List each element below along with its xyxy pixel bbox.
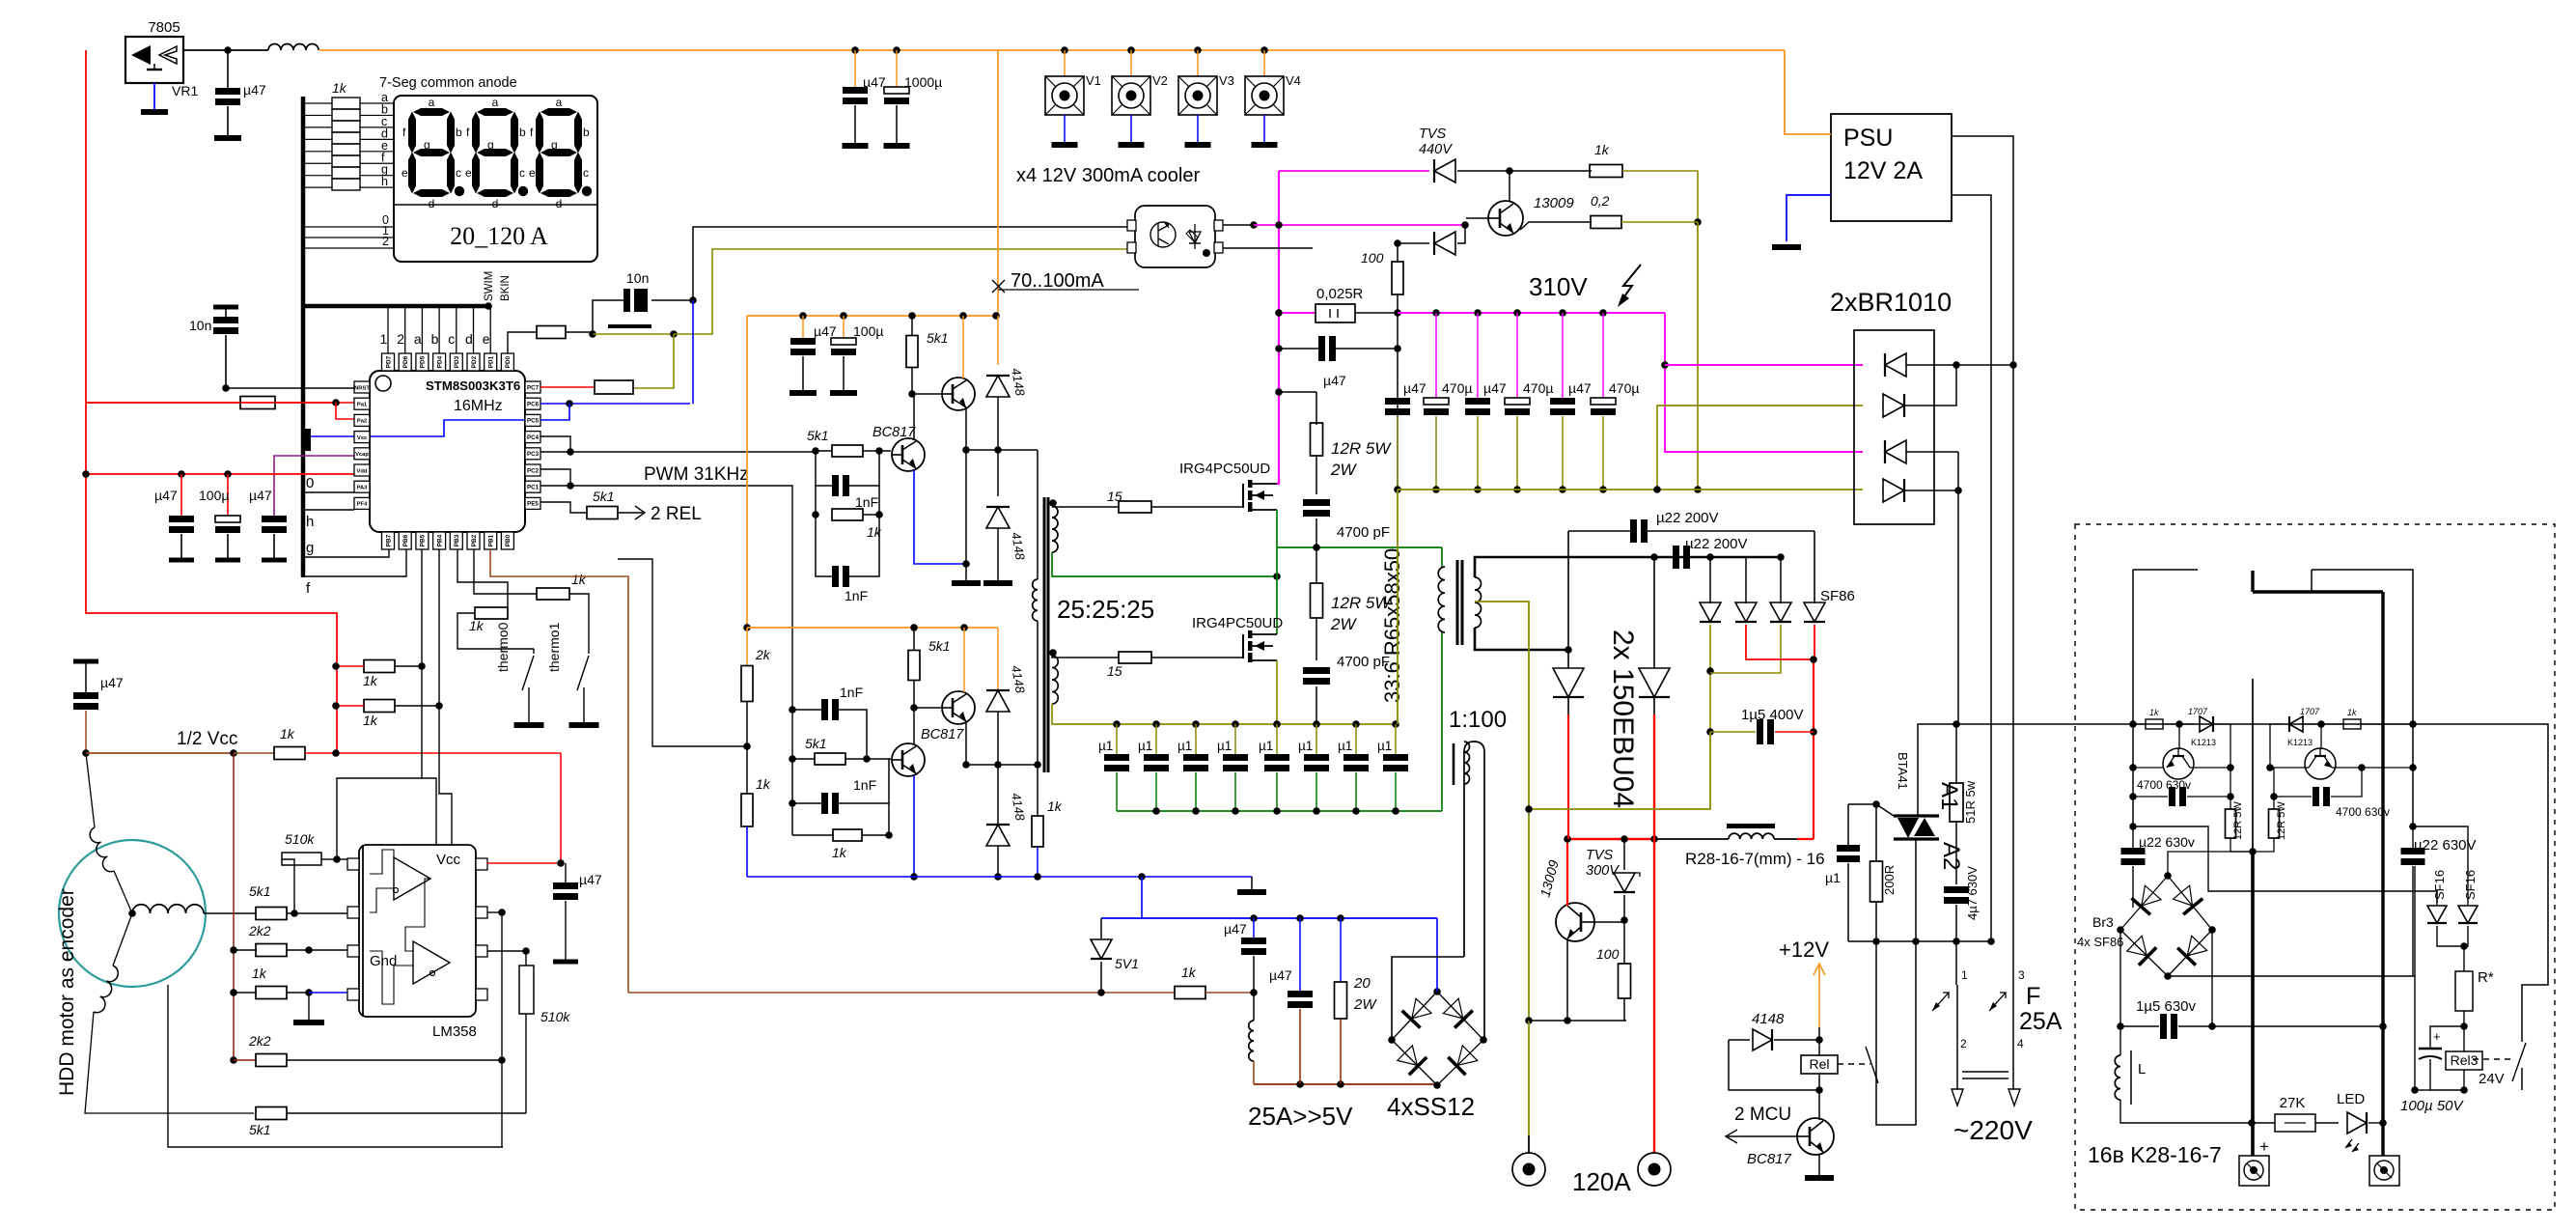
wire olive output to jack1 [1528, 809, 1530, 1021]
transistor Q6 13009 crowbar [1556, 903, 1594, 941]
capacitor u1 snubber gate [1847, 804, 1849, 845]
svg-text:1k: 1k [332, 80, 347, 96]
wire green to CT primary [1441, 547, 1443, 567]
inductor L module [2119, 1026, 2121, 1055]
wire T2 secondary bottom thick [1475, 628, 1568, 650]
pin PC6 [525, 398, 540, 409]
svg-text:g: g [424, 138, 430, 152]
diode D5 150EBU04 [1567, 650, 1569, 668]
wire red output bus [1567, 838, 1654, 840]
wire blue driver2 ground bus [747, 876, 1252, 878]
bridge Br3 4xSF86 [2120, 876, 2168, 930]
wire PC1 feed down to base [789, 755, 796, 763]
transformer T2 secondary winding [1475, 577, 1482, 628]
wire green bus horizontal [1277, 546, 1442, 548]
wire T2 secondary top thick [1475, 557, 1781, 577]
svg-text:470µ: 470µ [1609, 380, 1639, 396]
svg-text:51R 5w: 51R 5w [1963, 780, 1978, 824]
thick output wire 1 [2252, 679, 2254, 852]
diode BR D3 [1885, 440, 1906, 463]
pin Vdd [354, 464, 370, 476]
svg-text:200R: 200R [1882, 865, 1897, 895]
wire PC1 PWM to driver 2 [540, 486, 792, 759]
wire olive bus down to source bus [1397, 490, 1399, 724]
wire magenta 12R tap [1279, 391, 1316, 393]
jack output 2 [1638, 1153, 1671, 1186]
transformer T2 33:6 primary winding [1438, 567, 1445, 632]
capacitor u47 Vdd [180, 474, 182, 516]
svg-text:4µ7 630V: 4µ7 630V [1965, 866, 1980, 920]
svg-text:+: + [2433, 1029, 2441, 1044]
wire module feedback [2415, 1089, 2430, 1091]
svg-text:IRG4PC50UD: IRG4PC50UD [1179, 461, 1270, 477]
svg-text:1k: 1k [363, 713, 378, 728]
resistor 1k thermo1 [474, 549, 537, 594]
wire orange driver2 supply bus [747, 627, 998, 629]
svg-text:27K: 27K [2280, 1095, 2306, 1111]
shunt 0.025R [1279, 312, 1316, 314]
wire black to optocoupler pin1 [693, 227, 1129, 300]
svg-text:F: F [2026, 983, 2040, 1010]
capacitor 1nF lower driver2 [792, 802, 821, 804]
wire magenta 310V bus [1398, 312, 1665, 314]
dashed link Rel3 to mains switch [2473, 1058, 2510, 1060]
svg-text:1k: 1k [832, 845, 847, 860]
resistor 2k divider [741, 666, 753, 702]
capacitor 4700 630v right [2270, 793, 2278, 800]
svg-text:µ47: µ47 [249, 488, 272, 503]
inductor L1 filter [268, 44, 319, 51]
capacitor 4700pF lower [1316, 618, 1317, 660]
thermo0 switch [533, 649, 535, 654]
svg-text:1k: 1k [2149, 708, 2159, 717]
module boundary dashed box [2075, 524, 2555, 1210]
capacitor u47 filter2 [1299, 918, 1301, 991]
svg-text:SF16: SF16 [2463, 870, 2478, 900]
svg-text:1k: 1k [1594, 142, 1610, 157]
output row wire driver1 [966, 449, 1038, 451]
wire Q1 emitter to output row [965, 408, 967, 450]
diode BR D4 [1883, 479, 1904, 502]
thick winding bar [2253, 590, 2383, 593]
svg-text:20_120 A: 20_120 A [450, 222, 548, 250]
transistor K1213 left [2163, 748, 2194, 779]
svg-text:1k: 1k [1181, 965, 1197, 980]
wire divider mid [746, 702, 748, 794]
wire magenta opto to base net [1223, 224, 1254, 226]
wire brown sense line [628, 992, 1175, 994]
capacitor u47 encoder [73, 659, 98, 664]
wire L to 27K [2120, 1100, 2252, 1123]
svg-text:2W: 2W [1330, 461, 1357, 479]
svg-text:2: 2 [397, 331, 404, 347]
svg-text:PD5: PD5 [420, 355, 427, 368]
wire PB6 segment f [304, 549, 406, 576]
svg-text:~220V: ~220V [1953, 1115, 2033, 1145]
svg-text:PC5: PC5 [527, 418, 540, 425]
svg-text:µ22 200V: µ22 200V [1656, 510, 1719, 526]
transformer T1 winding W2 left [1033, 579, 1038, 621]
svg-text:Vcap: Vcap [355, 452, 369, 458]
resistor 100 to 310V bus [1397, 243, 1399, 262]
capacitor u47 filter1 [1253, 918, 1255, 938]
resistor 1k TVS [1590, 165, 1622, 178]
svg-text:PD3: PD3 [454, 355, 460, 368]
diode 1707 right [2270, 724, 2283, 768]
svg-text:1µ5 630v: 1µ5 630v [2136, 998, 2197, 1015]
svg-text:Vss: Vss [357, 435, 367, 441]
svg-text:µ1: µ1 [1177, 739, 1192, 753]
svg-text:SWIM: SWIM [484, 271, 495, 301]
svg-text:d: d [465, 331, 473, 347]
wire magenta to BR1010 [1665, 313, 1863, 452]
ground blue bus [1251, 877, 1253, 889]
svg-text:x4 12V 300mA cooler: x4 12V 300mA cooler [1016, 165, 1200, 186]
capacitor u47 at VR1 output [227, 50, 229, 92]
breaker link bars [1962, 1071, 2008, 1073]
transistor Q7 BC817 relay driver [1818, 1090, 1820, 1120]
wire olive snubber bus [1078, 723, 1398, 725]
pin PC2 [525, 464, 540, 476]
wire long mains right [1958, 724, 2548, 1028]
wire right rail top [2312, 570, 2413, 826]
svg-text:R*: R* [2478, 969, 2494, 986]
wire PD0 to 1k [508, 332, 537, 353]
Vss bar [305, 429, 311, 451]
svg-text:2: 2 [1960, 1037, 1967, 1050]
svg-text:510k: 510k [285, 831, 315, 847]
svg-text:0,025R: 0,025R [1316, 286, 1364, 302]
fan V4 [1260, 46, 1268, 54]
arrow to 2 REL [618, 512, 643, 514]
svg-text:20: 20 [1353, 975, 1371, 992]
pin PD2 [467, 353, 480, 371]
svg-text:16в K28-16-7: 16в K28-16-7 [2088, 1142, 2222, 1167]
svg-text:5k1: 5k1 [807, 428, 829, 443]
svg-text:LM358: LM358 [432, 1023, 477, 1040]
svg-text:4148: 4148 [1752, 1011, 1785, 1027]
wire PE5 [540, 502, 587, 513]
wire W2 to driver outputs [1037, 450, 1039, 579]
svg-text:16MHz: 16MHz [454, 398, 503, 414]
svg-text:SF86: SF86 [1820, 588, 1855, 604]
pin PD3 [450, 353, 462, 371]
svg-text:d: d [492, 197, 499, 210]
wire pin2 net [487, 911, 502, 913]
diode SF16 b [2458, 906, 2478, 923]
resistor 2k2 b [234, 1059, 256, 1061]
pin PB1 [485, 532, 497, 549]
svg-text:25A>>5V: 25A>>5V [1248, 1102, 1353, 1131]
TVS 300V [1623, 839, 1625, 870]
svg-text:µ22 630v: µ22 630v [2139, 834, 2195, 850]
wire green IGBT1 source to node [1276, 510, 1278, 576]
svg-text:LED: LED [2337, 1091, 2365, 1107]
resistor 12R 5W lower [1316, 547, 1317, 583]
pin PB4 [433, 532, 446, 549]
resistor 1k sense [1175, 987, 1205, 999]
svg-text:PB1: PB1 [488, 534, 495, 546]
capacitor u47 Vcap [262, 516, 287, 522]
svg-text:b: b [519, 126, 526, 139]
capacitor 4700 630v left [2129, 793, 2137, 800]
svg-text:µ47: µ47 [1568, 380, 1592, 396]
svg-text:10n: 10n [626, 270, 649, 286]
pin Pa2 [354, 414, 370, 426]
wire olive cap bank to BR1010 upper [1657, 406, 1863, 490]
resistor 1k PC7 [540, 386, 595, 388]
wire PC4 [540, 436, 570, 452]
resistor 5k1 PE5 [587, 507, 618, 519]
resistor 1k gnd [234, 992, 256, 994]
pin PC4 [525, 432, 540, 443]
wire Q6 base [1594, 921, 1624, 923]
svg-text:3: 3 [2018, 968, 2025, 982]
display bus thick vertical [301, 97, 306, 577]
svg-text:1k: 1k [756, 776, 771, 792]
resistor 12R 5W upper [1316, 392, 1317, 425]
wire PF4 digit-h select [304, 509, 354, 511]
svg-text:5k1: 5k1 [805, 736, 827, 751]
resistor 1k output pulldown [1037, 765, 1039, 817]
svg-text:V1: V1 [1086, 73, 1101, 88]
capacitor 100u Vdd [227, 474, 229, 516]
pin Vss [354, 432, 370, 443]
resistor 51R 5W snubber [1955, 724, 1957, 783]
wire bridge output to A1 node [1953, 720, 1960, 728]
svg-text:1k: 1k [252, 966, 267, 981]
svg-text:PD0: PD0 [505, 355, 512, 368]
7-seg display module box [394, 96, 597, 262]
diode BR D1 [1885, 353, 1906, 377]
wire 5k1 to Q1 base [911, 368, 913, 394]
diode BR D2 [1883, 394, 1904, 417]
svg-text:PB4: PB4 [436, 534, 443, 546]
svg-text:PB6: PB6 [402, 534, 409, 546]
svg-text:h: h [381, 175, 388, 188]
svg-text:2k2: 2k2 [248, 1033, 271, 1049]
svg-text:4700 pF: 4700 pF [1337, 524, 1390, 541]
transistor Q1 upper NPN driver1 [942, 378, 975, 410]
wire green snubber return bus [1117, 810, 1442, 812]
wire Q3 emitter to output row [965, 722, 967, 765]
svg-text:10n: 10n [189, 318, 211, 333]
fan V3 [1194, 46, 1202, 54]
svg-text:Rel3: Rel3 [2451, 1052, 2479, 1068]
voltage regulator VR1 7805 [125, 37, 183, 83]
capacitor bank 310V u47/470u x6 [1385, 398, 1410, 405]
svg-text:PSU: PSU [1843, 125, 1893, 152]
resistor 1k on PD0 [537, 326, 566, 339]
svg-text:15: 15 [1107, 663, 1122, 679]
resistor 27K [2252, 1122, 2275, 1124]
wire red right branch down [1813, 659, 1814, 839]
wire blue to 25A>>5V bus [1141, 877, 1143, 918]
svg-text:µ1: µ1 [1217, 739, 1232, 753]
transformer T1 25:25:25 core [1043, 497, 1046, 772]
svg-text:L: L [2138, 1061, 2146, 1078]
resistor 2k2 a [234, 949, 256, 951]
svg-text:1: 1 [1961, 968, 1968, 982]
svg-text:g: g [487, 138, 494, 152]
svg-text:2: 2 [382, 235, 389, 248]
svg-text:PC3: PC3 [527, 451, 540, 458]
svg-text:µ47: µ47 [1269, 967, 1292, 983]
svg-text:100µ 50V: 100µ 50V [2400, 1098, 2465, 1114]
svg-text:µ1: µ1 [1377, 739, 1392, 753]
svg-text:4: 4 [2017, 1037, 2024, 1050]
wire Q3 collector orange [963, 628, 965, 692]
svg-text:PD2: PD2 [471, 355, 478, 368]
power rail +5V red vertical from 7805 input [86, 50, 337, 753]
pin PB2 [467, 532, 480, 549]
relay coil Rel [1818, 1027, 1820, 1055]
capacitor 1000u 12V rail [893, 46, 900, 54]
svg-text:13009: 13009 [1534, 195, 1574, 211]
thermo1 switch [588, 649, 590, 654]
wire W1 top to 15R [1052, 506, 1119, 508]
svg-text:IRG4PC50UD: IRG4PC50UD [1192, 615, 1283, 631]
pin PB3 [450, 532, 462, 549]
svg-text:0: 0 [306, 475, 314, 491]
pin PB6 [399, 532, 411, 549]
resistor 1k half Vcc [274, 747, 305, 760]
wire MCU PB5 line [395, 665, 422, 667]
wire thermo feeds [457, 549, 508, 607]
svg-text:TVS: TVS [1419, 126, 1447, 142]
capacitor u22 630V right [2409, 823, 2417, 830]
resistor 1k left driver [2129, 720, 2137, 728]
svg-text:µ47: µ47 [1224, 921, 1247, 937]
CT primary loop [1464, 742, 1484, 1040]
svg-text:h: h [306, 514, 314, 530]
capacitor u47 12V rail [851, 46, 859, 54]
svg-text:1nF: 1nF [853, 777, 876, 793]
relay contact verticals [1876, 985, 1916, 1125]
ground driver1 output [952, 580, 981, 586]
jack output 1 [1512, 1153, 1545, 1186]
svg-text:1nF: 1nF [855, 494, 878, 510]
svg-text:1707: 1707 [2188, 707, 2208, 716]
svg-text:V3: V3 [1219, 73, 1234, 88]
jack module - [2369, 1156, 2399, 1186]
relay contact blade [1866, 1047, 1878, 1083]
resistor 5k1 bottom [256, 1107, 287, 1120]
wire olive PD0 net [593, 333, 674, 335]
wire orange +12V top bus [319, 49, 1785, 51]
current note 70..100mA [992, 280, 1005, 293]
wire NRST [226, 387, 354, 389]
pin PD4 [433, 353, 446, 371]
svg-text:BC817: BC817 [921, 727, 964, 742]
svg-text:2x 150EBU04: 2x 150EBU04 [1607, 630, 1639, 808]
wire blue to bridge [1436, 918, 1438, 992]
svg-text:24V: 24V [2479, 1071, 2505, 1087]
wire Vdd red [86, 473, 354, 475]
svg-text:PF4: PF4 [357, 502, 368, 508]
LED indicator [2347, 1112, 2367, 1134]
svg-text:PE5: PE5 [527, 501, 539, 508]
fan V1 [1061, 46, 1068, 54]
wire Q5 emitter [1520, 222, 1592, 230]
wire Q2 collector to Q1 base [913, 394, 915, 440]
svg-text:7805: 7805 [148, 19, 180, 36]
svg-text:470µ: 470µ [1442, 380, 1472, 396]
svg-text:1k: 1k [363, 673, 378, 688]
7-seg digits 8.8.8 [413, 108, 450, 116]
capacitor 1nF upper driver1 [816, 451, 832, 486]
capacitor u47 across shunt [1279, 348, 1318, 350]
transistor Q2 BC817 driver1 [892, 438, 925, 471]
svg-text:g: g [551, 138, 558, 152]
wire red to jack2 [1653, 839, 1655, 1153]
svg-text:c: c [448, 331, 455, 347]
wires resistor array to display segment pins a-h [360, 102, 394, 104]
wire blue to Gnd pin [309, 992, 347, 994]
wire magenta IGBT1 drain [1277, 171, 1279, 484]
svg-text:µ22 200V: µ22 200V [1685, 536, 1748, 552]
svg-text:1k: 1k [571, 572, 587, 587]
wire MCU line to divider [618, 559, 747, 746]
capacitors u1 x8 snubber row [1116, 724, 1118, 754]
svg-text:100µ: 100µ [853, 323, 883, 339]
resistor 1k base2 driver1 [812, 511, 819, 518]
svg-text:70..100mA: 70..100mA [1011, 270, 1104, 292]
inductor R28-16-7 output choke [1654, 838, 1729, 840]
ground LM358 input [308, 993, 310, 1020]
svg-text:PWM 31KHz: PWM 31KHz [644, 464, 749, 485]
svg-text:5k1: 5k1 [249, 1122, 271, 1137]
wire SF16 join [2437, 926, 2468, 946]
svg-text:c: c [456, 166, 461, 180]
svg-text:100: 100 [1596, 946, 1620, 962]
svg-text:1k: 1k [469, 618, 485, 633]
svg-text:BKIN: BKIN [500, 275, 512, 301]
wire orange vertical from top bus to drivers [997, 50, 999, 316]
svg-text:PB7: PB7 [385, 534, 392, 546]
wire red D1 to crowbar [1566, 839, 1568, 906]
svg-text:µ47: µ47 [863, 74, 886, 90]
svg-text:V4: V4 [1286, 73, 1301, 88]
capacitor u22 200V first [1630, 519, 1637, 543]
wire left rail mid [2129, 823, 2137, 830]
breaker F1 [1956, 985, 1958, 1089]
diode SF16 a [2436, 891, 2438, 905]
ground Q7 [1818, 1154, 1820, 1175]
resistor 5k1 vertical driver2 [913, 628, 915, 651]
transformer T1 winding W3 lower right [1052, 656, 1058, 704]
diode 1707 left [2179, 723, 2195, 725]
wire CT to bridge left [1392, 957, 1464, 1040]
wire 7805 output [183, 49, 268, 51]
wire olive 0.2 to rail [1621, 221, 1698, 223]
svg-text:2k2: 2k2 [248, 923, 271, 938]
capacitor 100u 50V [2430, 1026, 2464, 1044]
svg-text:a: a [429, 96, 435, 109]
wire bottom vertex bus [2168, 975, 2415, 977]
pin PC1 [525, 481, 540, 492]
svg-text:BC817: BC817 [873, 425, 916, 440]
svg-text:Vdd: Vdd [357, 468, 368, 474]
capacitor 100u driver1 [843, 316, 845, 338]
wire Vcap purple [274, 456, 354, 516]
wire PA3 digit-0 select [304, 491, 354, 493]
svg-text:µ1: µ1 [1298, 739, 1313, 753]
HDD motor encoder circle [59, 840, 206, 987]
bus wires to resistor array [304, 102, 332, 104]
wire Q7 base arrow 2 MCU [1728, 1135, 1798, 1137]
svg-text:120A: 120A [1572, 1167, 1631, 1196]
